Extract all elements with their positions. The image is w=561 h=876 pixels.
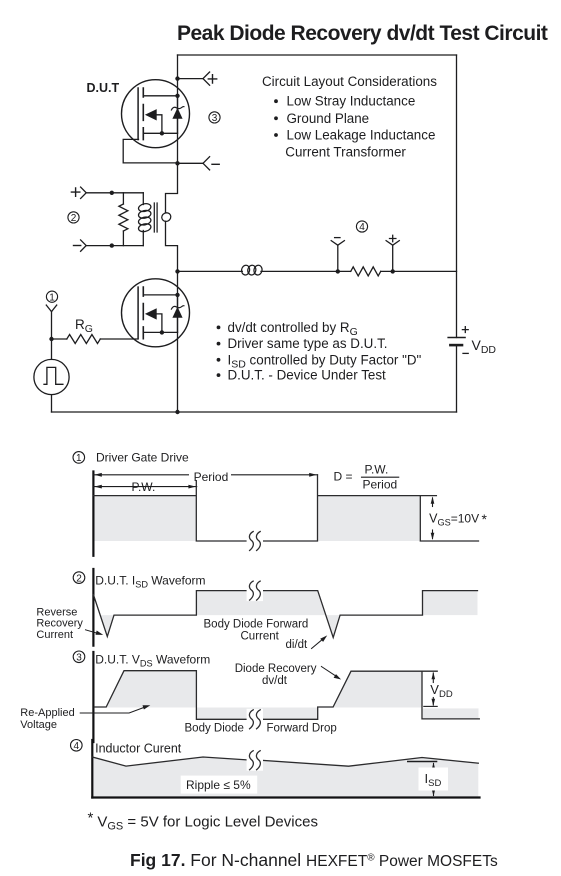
svg-text:D.U.T: D.U.T [87,81,120,95]
svg-text:4: 4 [359,222,365,233]
terminal arrow - (upper) [203,157,210,170]
wire pulse generator top lead [51,339,53,359]
svg-text:di/dt: di/dt [286,639,309,651]
svg-text:VGS=10V: VGS=10V [429,511,479,527]
wf2 fill reverse recovery dip [100,615,114,636]
svg-text:Peak Diode Recovery dv/dt Test: Peak Diode Recovery dv/dt Test Circuit [177,22,548,45]
wf1 pulse fill 1 [93,496,195,541]
svg-text:3: 3 [76,653,82,664]
battery VDD plate - [450,344,462,347]
pointer di/dt [312,639,324,649]
wf2 trace [93,591,477,638]
wf1 pulse fill 2 [318,496,420,541]
node current sense + [391,269,395,273]
svg-text:Current: Current [36,629,73,641]
svg-text:Fig 17. For N-channel HEXFET®: Fig 17. For N-channel HEXFET® Power MOSF… [130,850,498,870]
circled 3 (waveform) [73,651,85,664]
wire inductor to resistor [261,270,351,272]
node transformer + [110,191,114,195]
wf2 fill body diode band [196,591,325,616]
label + (top terminal) [208,75,216,83]
circled 4 (waveform) [71,740,83,753]
svg-text:Inductor Curent: Inductor Curent [95,742,182,756]
formula D = P.W. / Period [334,463,399,492]
wire primary bottom lead [142,231,144,246]
wire to RG [52,338,67,340]
axis wf4 horizontal [92,796,479,798]
inductor L [241,264,263,275]
tick ISD top [408,761,437,763]
svg-text:1: 1 [76,453,82,464]
label re-applied voltage [20,707,74,731]
label - (battery) [463,352,468,354]
svg-text:Ripple ≤ 5%: Ripple ≤ 5% [186,778,251,792]
wire main bus (D.U.T. branch) [177,55,179,163]
dimension arrow VDD top [432,673,434,683]
svg-text:Reverse: Reverse [36,606,77,618]
svg-text:P.W.: P.W. [132,480,156,494]
label body diode forward drop [185,723,337,735]
svg-text:D.U.T. ISD Waveform: D.U.T. ISD Waveform [95,573,205,589]
label diode recovery dv/dt [235,663,317,687]
resistor transformer damping leads [122,193,124,246]
svg-text:D =: D = [334,469,353,483]
axis wf4 vertical [91,740,93,798]
svg-text:dv/dt: dv/dt [262,675,288,687]
svg-text:3: 3 [212,113,218,124]
wf3 fill forward drop band [197,708,318,720]
svg-text:Current Transformer: Current Transformer [285,144,406,159]
wire sense + stub [392,245,394,271]
wf4 trace [92,757,478,766]
wire bus to transformer secondary top [166,163,178,213]
svg-text:Period: Period [363,478,398,492]
pulse symbol [44,367,63,384]
pointer reverse recovery [86,630,99,634]
battery VDD plate + [448,337,465,339]
svg-text:Current: Current [241,631,280,643]
dimension ticks VDD [424,705,437,707]
label - (upper terminal) [212,163,219,165]
svg-text:D.U.T. - Device Under Test: D.U.T. - Device Under Test [228,368,387,383]
circled 1 [46,291,57,303]
svg-text:Circuit Layout Considerations: Circuit Layout Considerations [262,74,437,89]
transformer core [154,203,157,232]
wf2 fill di/dt dip [326,615,340,637]
resistor transformer damping [119,204,128,231]
transistor driver (bottom MOSFET with body diode) [122,279,190,347]
wire to + terminal [178,78,204,80]
wire right rail upper [456,55,458,338]
wire D.U.T. gate-source loop [123,139,176,163]
svg-text:P.W.: P.W. [365,463,389,477]
terminal arrow 1 (gate drive input) [46,305,56,312]
wire transformer + lead [86,192,143,194]
text circuit layout considerations [262,74,437,159]
svg-text:Driver Gate Drive: Driver Gate Drive [96,450,189,464]
circled 2 [68,212,79,224]
wire transformer secondary bottom to bus [166,221,178,412]
svg-text:2: 2 [71,213,77,224]
break wf3 [247,709,263,730]
svg-text:Re-Applied: Re-Applied [20,707,74,719]
svg-text:Diode Recovery: Diode Recovery [235,663,317,675]
wire sense - stub [337,245,339,271]
break wf4 [247,750,263,771]
label + (battery) [462,327,468,333]
pointer diode recovery [321,667,337,677]
wf3 fill plateau 2 [333,671,422,707]
dimension arrow VDD bottom [432,698,434,706]
circled 4 [356,221,367,233]
svg-text:D.U.T. VDS Waveform: D.U.T. VDS Waveform [95,652,210,668]
circled 2 (waveform) [73,572,85,585]
label ripple [181,776,258,794]
dimension line P.W. [93,486,196,488]
axis wf3 [92,652,94,742]
wire bus to inductor [178,270,243,272]
terminal arrow - (transformer) [81,240,87,251]
label - (sense) [335,237,340,239]
dimension arrow VGS bottom [432,530,434,539]
label + (sense) [390,235,396,241]
wire to - terminal [178,162,204,164]
node - terminal junction [175,161,179,165]
label reverse recovery current [36,606,83,641]
wire gate input stub [51,312,53,339]
text bullets notes [217,320,422,383]
node gate input junction [49,337,53,341]
wire bottom rail [52,411,457,413]
svg-text:Ground Plane: Ground Plane [287,111,370,126]
circled 3 [209,112,220,124]
inductor transformer primary winding [138,203,152,233]
label body diode forward current [204,619,309,652]
wf4 fill ripple area [92,757,478,796]
label - (transformer input) [74,245,81,247]
wf1 trace [93,475,478,541]
terminal arrow + (top) [203,72,210,85]
source pulse generator [34,359,69,394]
label + (transformer input) [71,188,79,196]
label period [189,470,231,484]
resistor sense [351,267,381,276]
transistor D.U.T. (top MOSFET with body diode) [122,80,190,148]
wf2 fill right band [423,591,478,616]
circled 1 (waveform) [73,452,85,465]
svg-text:Recovery: Recovery [36,618,83,630]
svg-text:Period: Period [194,470,229,484]
wire transformer - lead [86,245,143,247]
wire RG to driver gate [100,338,138,340]
node current sense - [336,269,340,273]
terminal arrow - (sense) [331,241,344,246]
svg-text:4: 4 [74,741,80,752]
dimension arrow ISD [433,764,435,796]
axis wf1 [92,472,94,556]
terminal arrow + (sense) [386,241,399,246]
wire resistor to right rail [381,270,457,272]
break wf2 [247,580,263,601]
svg-text:Body Diode Forward: Body Diode Forward [204,619,309,631]
axis wf2 [92,569,94,646]
wire right rail lower [456,345,458,412]
break wf1 [247,531,263,552]
node transformer - [110,243,114,247]
terminal arrow + (transformer) [81,187,87,198]
svg-text:Low Leakage Inductance: Low Leakage Inductance [287,128,436,143]
wire top rail [178,54,457,56]
dimension arrow VGS top [432,498,434,507]
wf3 fill plateau 1 [106,671,196,708]
inductor transformer secondary winding [160,211,172,223]
node + top terminal junction [175,76,179,80]
node bus bottom junction [175,410,179,414]
label ISD [419,768,449,791]
pointer re-applied voltage [80,707,146,713]
wf3 trace [94,671,479,720]
svg-text:1: 1 [49,292,55,303]
wire pulse generator bottom lead [51,395,53,412]
svg-text:Low Stray Inductance: Low Stray Inductance [287,94,416,109]
svg-text:Voltage: Voltage [20,719,57,731]
resistor RG [67,335,101,344]
wire primary top lead [142,193,144,205]
wf3 fill right band [423,708,479,719]
svg-text:2: 2 [76,573,82,584]
svg-text:Body Diode: Body Diode [185,723,244,735]
svg-text:Forward Drop: Forward Drop [267,723,337,735]
svg-text:*: * [482,511,488,527]
svg-text:Driver same type as D.U.T.: Driver same type as D.U.T. [228,336,388,351]
node bus inductor junction [175,269,179,273]
dimension line period [93,474,317,476]
